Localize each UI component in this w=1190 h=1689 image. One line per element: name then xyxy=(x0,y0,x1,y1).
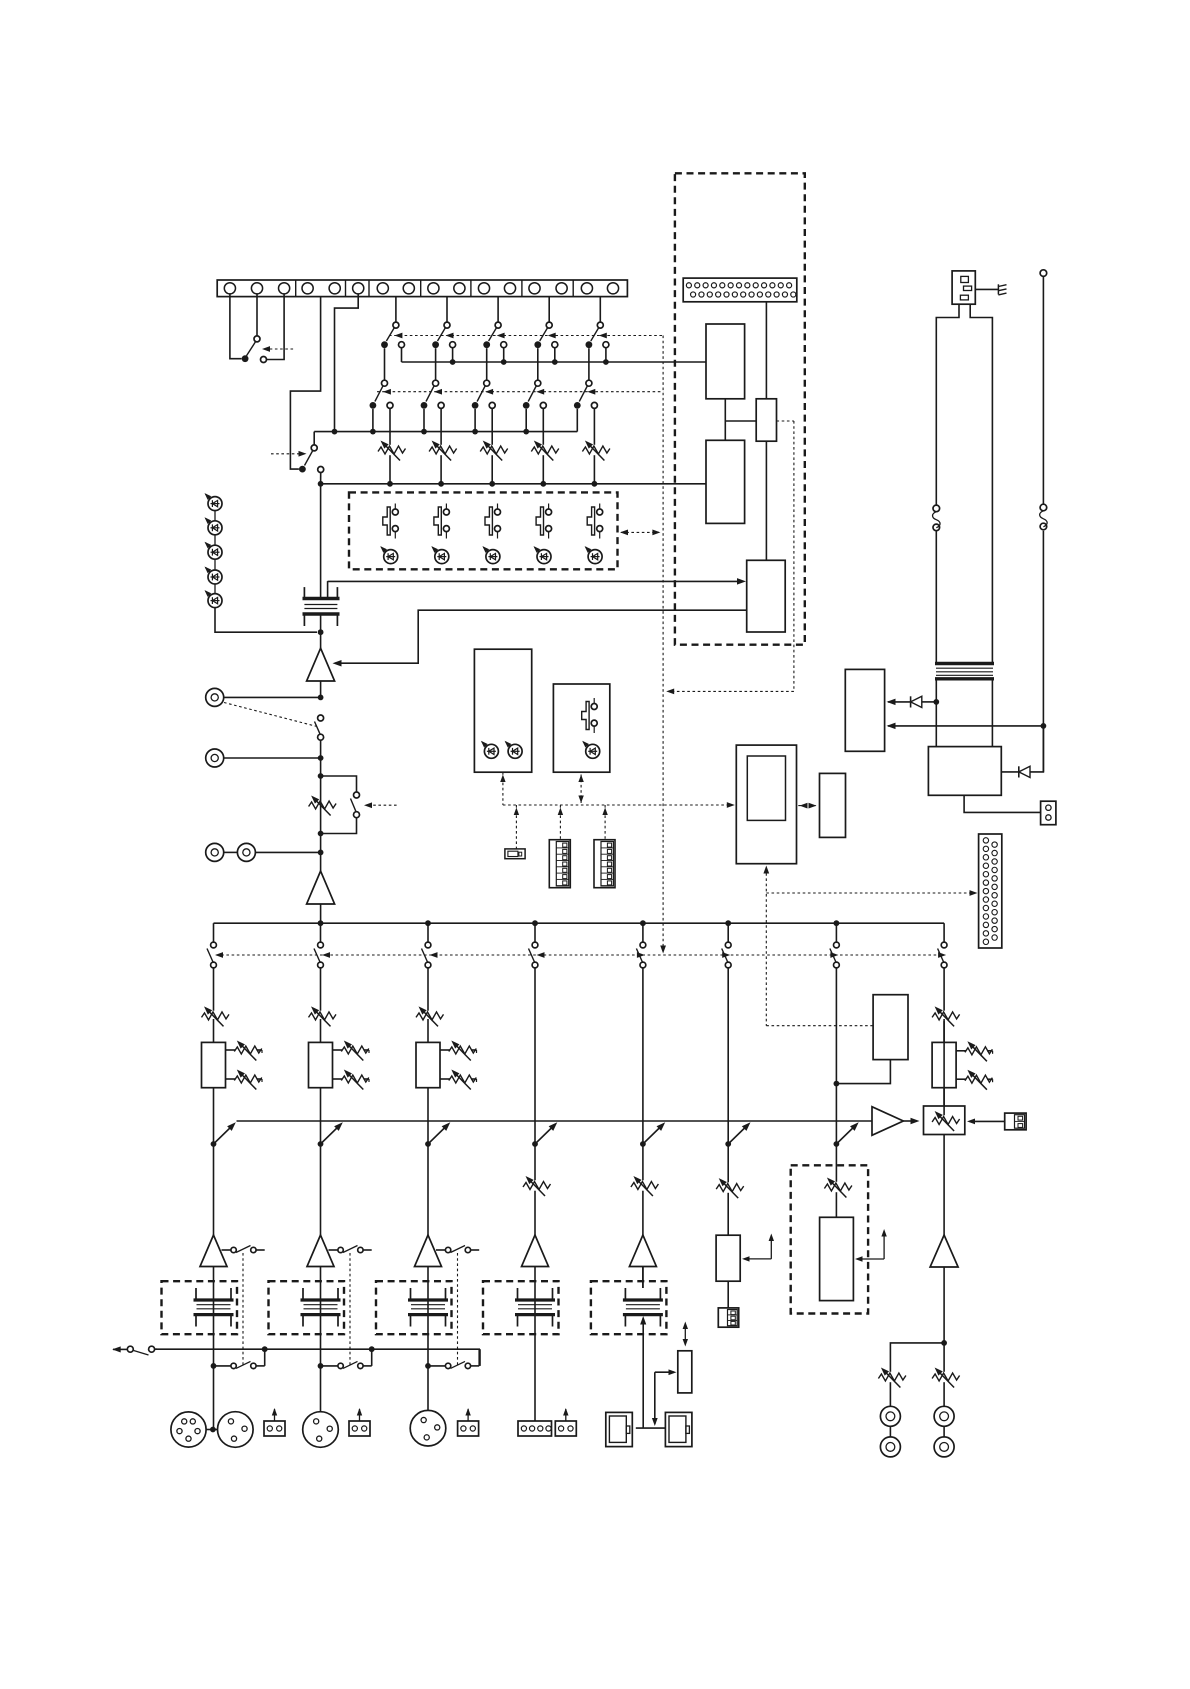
push button PB3 xyxy=(485,504,501,539)
wire TB1 to S5a xyxy=(599,297,601,323)
speaker feed line xyxy=(640,1316,646,1428)
effects unit block xyxy=(675,173,805,644)
output transformer T15 xyxy=(623,1288,663,1327)
XLR connector CN3 xyxy=(218,1412,254,1448)
switch S17 xyxy=(830,923,839,1121)
module U13 xyxy=(820,1217,854,1300)
wire ch2 to CN5 xyxy=(320,1366,322,1412)
wire S3a to S3b xyxy=(486,348,488,380)
push button PB1 xyxy=(383,504,398,539)
wire A2 to bus1 xyxy=(320,904,322,923)
switch S33 xyxy=(425,1349,479,1369)
control link monitor block xyxy=(620,530,660,536)
wire S5a to S5b xyxy=(588,348,590,380)
output transformer T13 xyxy=(408,1288,448,1327)
potentiometer VR1 xyxy=(378,438,406,460)
VCA U14 xyxy=(924,1106,965,1135)
output transformer T12 box xyxy=(269,1281,345,1334)
switch S18 xyxy=(938,923,947,1121)
indicator LED D1 xyxy=(378,544,397,563)
wire T1 to U4 xyxy=(328,578,746,584)
control line from U2 xyxy=(666,421,794,694)
indicator LED D2 xyxy=(430,544,449,563)
RCA jack J10 xyxy=(880,1426,900,1457)
amplifier A13 xyxy=(415,1235,442,1267)
jack sense dotted xyxy=(224,703,317,727)
control bus dashed xyxy=(500,772,735,808)
wire F1 to T2 xyxy=(935,531,937,664)
connector CN11 xyxy=(718,1308,738,1327)
switch S21 xyxy=(222,1246,265,1253)
link CN2 CN3 xyxy=(206,1429,217,1431)
switch S12 xyxy=(314,923,323,1013)
wire ch2 down xyxy=(320,1121,322,1235)
mix bus xyxy=(318,481,706,487)
control line to S7 xyxy=(364,802,397,808)
wire P1 right to T2 xyxy=(970,304,992,663)
switch S1a xyxy=(381,322,404,348)
wire TB1 pin6 to aux bus xyxy=(335,294,359,432)
amplifier A15 xyxy=(629,1235,656,1267)
potentiometer VR4 xyxy=(531,438,559,460)
wire S6 to node xyxy=(318,740,324,779)
EQ module U12 xyxy=(309,1042,333,1121)
wire U14 down xyxy=(943,1135,945,1236)
wire A4 to rec outs xyxy=(941,1267,947,1406)
fader tap ch2 xyxy=(318,1120,345,1147)
switch S6 xyxy=(315,715,324,740)
switch S22 xyxy=(329,1246,372,1253)
switch S3b xyxy=(472,380,496,409)
mains terminal xyxy=(1040,270,1047,504)
fader tap ch7 xyxy=(834,1120,861,1147)
switch S2 xyxy=(299,445,324,473)
wire U1 to U3 xyxy=(724,399,726,441)
CPU U9 xyxy=(820,773,846,837)
potentiometer VR29 xyxy=(932,1365,960,1387)
output transformer T12 xyxy=(301,1288,341,1327)
bus 1 xyxy=(214,920,945,926)
potentiometer VR27 xyxy=(824,1175,852,1197)
EQ module U13 xyxy=(416,1042,440,1121)
slide switch SW1 xyxy=(505,849,525,859)
wire ch3 xfmr xyxy=(427,1267,429,1366)
wire mains to U5 xyxy=(887,723,1044,729)
wire S4a to S4b xyxy=(537,348,539,380)
wire TB1 pin1 to S1 xyxy=(230,294,242,359)
wire ch7 down xyxy=(835,1121,837,1217)
wire S1b to bus B xyxy=(372,409,374,432)
wire U4 to A1 xyxy=(333,610,747,666)
wire S2a to bus A xyxy=(452,348,454,362)
wire S1a to S1b xyxy=(384,348,386,380)
link arrow U12 xyxy=(742,1234,774,1262)
DIN connector CN2 xyxy=(171,1412,206,1447)
wire ch2 xfmr xyxy=(320,1267,322,1366)
switch S4a xyxy=(534,322,557,348)
potentiometer VR26 xyxy=(716,1176,744,1198)
potentiometer VR13 xyxy=(416,1004,444,1042)
switch S11 xyxy=(207,923,216,1013)
indicator LED D4 xyxy=(532,544,551,563)
wire S5b to bus B xyxy=(576,409,578,432)
wire S3a to bus A xyxy=(503,348,505,362)
RCA jack J11 xyxy=(934,1406,954,1426)
link J7 J8 xyxy=(636,1427,666,1429)
EQ pot VRa1 xyxy=(226,1038,263,1060)
bus 3 xyxy=(155,1346,480,1366)
switch S8 xyxy=(112,1346,157,1355)
wire S2b to pot VR2 xyxy=(440,408,442,483)
control to J6 xyxy=(766,890,977,896)
fuse F2 xyxy=(1040,504,1048,530)
switch S14 xyxy=(529,923,538,1121)
wire ch5 down xyxy=(642,1121,644,1235)
diode D1 xyxy=(887,696,937,707)
EQ pot VRa3 xyxy=(440,1038,477,1060)
wire TB1 to S2a xyxy=(446,297,448,323)
transformer T1 xyxy=(303,484,340,648)
wire S2 to mix bus xyxy=(320,473,322,484)
potentiometer VR24 xyxy=(523,1174,551,1196)
LCD to CPU link xyxy=(798,803,816,809)
wire P1 left to T2 xyxy=(936,304,959,505)
wire TB1 to S1a xyxy=(395,297,397,323)
connector J5 xyxy=(683,278,797,302)
wire ch5 amp out xyxy=(642,1267,644,1289)
XLR connector CN7 xyxy=(410,1410,446,1446)
wire ch6 down xyxy=(727,1121,729,1235)
jack J3 xyxy=(206,843,224,861)
potentiometer VR12 xyxy=(309,1004,337,1042)
push button PB4 xyxy=(536,504,552,539)
wire U2 to U4 xyxy=(765,441,767,560)
wire S3b to pot VR3 xyxy=(491,408,493,483)
control module U7 xyxy=(474,649,531,772)
connector CN9 xyxy=(518,1421,552,1436)
wire TB1 to S3a xyxy=(497,297,499,323)
wire ch4 xfmr xyxy=(534,1267,536,1289)
power amp unit U5 xyxy=(845,669,884,751)
indicator LED D5 xyxy=(583,544,602,563)
control module U8 xyxy=(553,684,609,772)
wire ch1 to connectors xyxy=(210,1366,216,1433)
potentiometer VR28 xyxy=(878,1365,906,1387)
speaker jack J8 xyxy=(665,1412,692,1446)
switch S2b xyxy=(421,380,445,409)
wire S4b to bus B xyxy=(525,409,527,432)
transformer T2 secondary xyxy=(933,680,992,746)
fuse F1 xyxy=(933,505,941,531)
switch S13 xyxy=(422,923,431,1013)
wire ch4 down xyxy=(534,1121,536,1235)
fader tap ch5 xyxy=(640,1120,667,1147)
DIP switch DIP2 xyxy=(594,840,615,888)
wire S5a to bus A xyxy=(605,348,607,362)
connector CN6 xyxy=(349,1408,370,1436)
switch S5b xyxy=(574,380,598,409)
push button PB6 xyxy=(582,698,598,733)
DIP switch DIP1 xyxy=(549,840,570,888)
wire U12 to CN11 xyxy=(727,1281,729,1308)
wire U10 to ch7 xyxy=(834,1060,891,1087)
control line row3 xyxy=(215,952,946,958)
EQ module U18 xyxy=(932,1042,956,1106)
connector CN4 xyxy=(264,1408,285,1436)
link arrow U13 xyxy=(855,1229,887,1262)
branch rec left xyxy=(890,1343,944,1406)
EQ pot VRa2 xyxy=(333,1038,370,1060)
fader tap ch4 xyxy=(532,1120,559,1147)
wire S2 to aux bus xyxy=(313,432,315,445)
potentiometer VR11 xyxy=(202,1004,230,1042)
wire node to jacks xyxy=(318,776,324,855)
amplifier A1 xyxy=(307,648,335,681)
EQ pot VRb8 xyxy=(956,1068,993,1090)
wire ch5 xfmr xyxy=(642,1267,644,1289)
wire S5b to pot VR5 xyxy=(593,408,595,483)
potentiometer VR18 xyxy=(932,1004,960,1042)
output transformer T14 box xyxy=(483,1281,559,1334)
wire S1b to pot VR1 xyxy=(389,408,391,483)
wire A1 to jack node xyxy=(318,681,324,700)
control from DIP1 xyxy=(558,805,563,840)
connector J6 xyxy=(979,834,1002,948)
monitor select block xyxy=(349,492,618,569)
switch S16 xyxy=(722,923,731,1121)
module U12 xyxy=(716,1235,740,1281)
wire TB1 pin3 to S1 xyxy=(267,294,284,360)
sense line to J8 xyxy=(652,1369,677,1426)
RCA jack J9 xyxy=(880,1406,900,1426)
transformer T2 core xyxy=(935,664,994,679)
output transformer T14 xyxy=(515,1288,555,1327)
switch S3a xyxy=(483,322,506,348)
wire S2a to S2b xyxy=(435,348,437,380)
amplifier A12 xyxy=(307,1235,334,1267)
bypass branch xyxy=(321,776,357,834)
RCA jack J12 xyxy=(934,1426,954,1457)
wire J5 to U2 xyxy=(765,302,767,399)
control LCD from below xyxy=(763,866,769,1026)
push button PB2 xyxy=(434,504,450,539)
mute control dotted ch1 xyxy=(242,1253,244,1366)
XLR connector CN5 xyxy=(303,1412,339,1448)
connector CN12 xyxy=(1005,1113,1026,1130)
bus 2 xyxy=(237,1120,873,1122)
EQ pot VRb2 xyxy=(333,1067,370,1089)
wire S3b to bus B xyxy=(474,409,476,432)
chassis ground xyxy=(975,284,1006,295)
switch S23 xyxy=(436,1246,479,1253)
bus B xyxy=(314,429,577,435)
amplifier A14 xyxy=(522,1235,549,1267)
wire ch1 down xyxy=(213,1121,215,1235)
LCD display xyxy=(736,745,796,864)
EQ module U11 xyxy=(202,1042,226,1121)
jack J4 xyxy=(224,843,321,861)
switch S31 xyxy=(211,1349,265,1369)
EQ pot VRb1 xyxy=(226,1067,263,1089)
connector CN10 xyxy=(555,1408,576,1436)
EQ pot VRa8 xyxy=(956,1039,993,1061)
fader tap ch3 xyxy=(425,1120,452,1147)
LED D8 xyxy=(580,739,599,758)
mute control dotted ch3 xyxy=(457,1253,459,1366)
push button PB5 xyxy=(587,504,603,539)
jack J1 2TR xyxy=(206,688,321,706)
switch S32 xyxy=(318,1349,372,1369)
wire U6 to connector CN1 xyxy=(964,795,1041,812)
amplifier A3 xyxy=(872,1107,920,1136)
wire F2 down xyxy=(1041,531,1047,772)
potentiometer VR2 xyxy=(429,438,457,460)
control line row2 xyxy=(377,389,663,395)
wire S2b to bus B xyxy=(423,409,425,432)
AC plug P1 xyxy=(952,271,975,304)
link arrow U11 xyxy=(683,1322,688,1347)
LED D6 xyxy=(479,739,498,758)
wire ch1 xfmr xyxy=(213,1267,215,1366)
amplifier A4 xyxy=(930,1235,958,1267)
wire TB1 pin2 to S1 xyxy=(256,294,258,336)
wire S1a to bus A xyxy=(401,348,403,362)
fader tap ch1 xyxy=(211,1120,238,1147)
potentiometer VR3 xyxy=(480,438,508,460)
control from DIP2 xyxy=(602,805,607,840)
wire ch4 to CN9 xyxy=(534,1288,536,1421)
switch S7 xyxy=(351,792,360,818)
wire ch3 to CN7 xyxy=(427,1366,429,1411)
wire TB1 to S4a xyxy=(548,297,550,323)
control line to S1 xyxy=(262,346,293,352)
sense module U11 xyxy=(678,1351,692,1393)
control from slide switch SW1 xyxy=(514,805,519,849)
wire CN12 to U14 xyxy=(967,1119,1005,1125)
module U3 xyxy=(706,440,745,523)
control drop line xyxy=(660,336,666,954)
wire U1 to U2 xyxy=(725,420,756,422)
LED D7 xyxy=(503,739,522,758)
EQ pot VRb3 xyxy=(440,1067,477,1089)
module U1 xyxy=(706,324,745,399)
wire LED chain to node T1B xyxy=(215,608,317,633)
wire S4b to pot VR4 xyxy=(542,408,544,483)
amplifier A2 xyxy=(307,852,335,904)
fader tap ch6 xyxy=(725,1120,752,1147)
connector CN8 xyxy=(458,1408,479,1436)
switch S1b xyxy=(370,380,394,409)
jack J2 xyxy=(206,749,324,767)
potentiometer VR6 xyxy=(309,793,337,815)
speaker jack J7 xyxy=(606,1412,633,1446)
control line row1 xyxy=(389,333,663,339)
switch S1 xyxy=(242,336,267,363)
switch S15 xyxy=(636,923,645,1121)
terminal strip TB1 xyxy=(217,280,627,297)
graphic EQ block xyxy=(791,1165,868,1313)
output transformer T13 box xyxy=(376,1281,452,1334)
output transformer T11 xyxy=(194,1288,234,1327)
wire ch3 down xyxy=(427,1121,429,1235)
indicator LED D3 xyxy=(481,544,500,563)
switch S2a xyxy=(432,322,455,348)
switch S5a xyxy=(586,322,609,348)
control line to S2 xyxy=(271,451,307,457)
switch S4b xyxy=(523,380,547,409)
level meter LED chain xyxy=(203,491,222,607)
wire S4a to bus A xyxy=(554,348,556,362)
mute control dotted ch2 xyxy=(349,1253,351,1366)
amplifier A11 xyxy=(200,1235,227,1267)
output transformer T15 box xyxy=(591,1281,667,1334)
module U4 xyxy=(747,560,786,632)
output transformer T11 box xyxy=(162,1281,238,1334)
potentiometer VR5 xyxy=(582,438,610,460)
wire TB1 sect2 to S2 xyxy=(290,297,320,470)
module U2 xyxy=(756,399,776,441)
potentiometer VR25 xyxy=(631,1174,659,1196)
diode D2 xyxy=(1001,726,1043,778)
control to U10 xyxy=(766,1025,873,1027)
bus A xyxy=(402,359,707,365)
connector CN1 xyxy=(1041,801,1056,825)
module U10 xyxy=(873,995,908,1060)
power supply U6 xyxy=(928,747,1001,796)
